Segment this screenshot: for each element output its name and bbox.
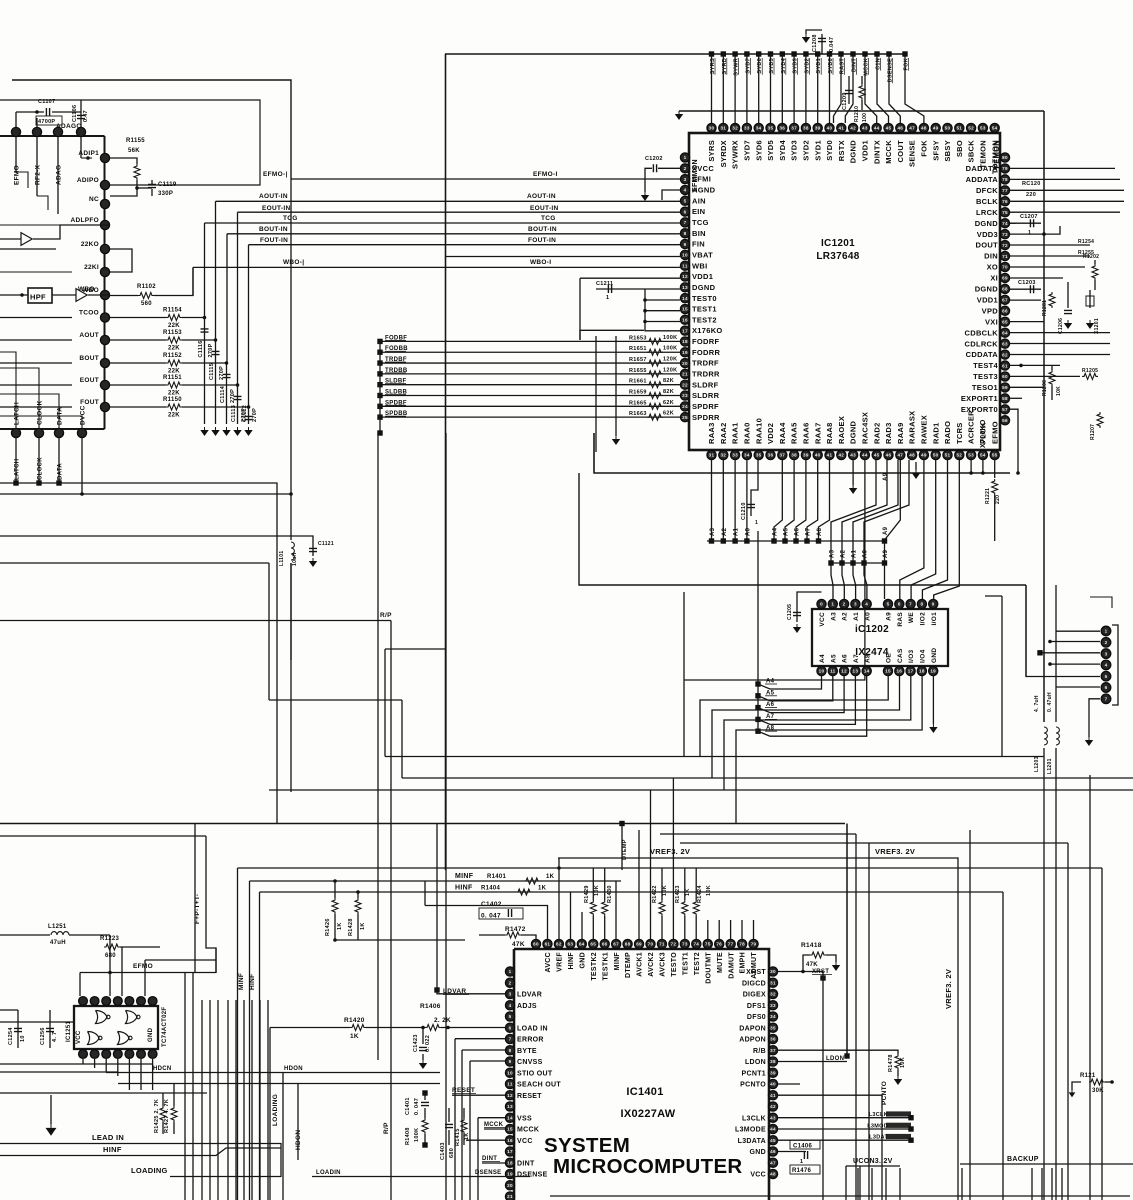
svg-text:HINF: HINF xyxy=(249,974,256,990)
wire VSS feed xyxy=(478,1117,505,1119)
resistor R1210 100 xyxy=(859,84,865,100)
svg-text:DAPON: DAPON xyxy=(739,1025,766,1032)
svg-text:ERROR: ERROR xyxy=(517,1037,544,1044)
svg-text:VCC: VCC xyxy=(819,612,826,627)
svg-text:VDD2: VDD2 xyxy=(766,423,775,444)
svg-text:C1206: C1206 xyxy=(1058,318,1064,334)
svg-text:PCNT1: PCNT1 xyxy=(742,1070,766,1077)
svg-text:TEST2: TEST2 xyxy=(694,952,701,975)
svg-text:DINTX: DINTX xyxy=(872,140,881,164)
svg-text:HDON: HDON xyxy=(284,1066,303,1072)
wire long horizontal y473 xyxy=(594,433,1010,473)
svg-text:20: 20 xyxy=(507,1183,513,1188)
svg-text:3: 3 xyxy=(854,602,857,607)
svg-text:34: 34 xyxy=(770,1014,776,1019)
svg-text:A0: A0 xyxy=(745,527,751,536)
svg-text:37: 37 xyxy=(791,126,797,131)
output resistors R1154..R1150 22K xyxy=(110,308,249,419)
svg-text:33: 33 xyxy=(732,453,738,458)
svg-text:R1665: R1665 xyxy=(629,400,647,406)
inductor L1251 47uH xyxy=(0,934,50,936)
svg-text:C1401: C1401 xyxy=(405,1097,411,1115)
svg-text:VCC: VCC xyxy=(517,1138,533,1145)
svg-text:33: 33 xyxy=(744,126,750,131)
svg-text:2: 2 xyxy=(843,602,846,607)
svg-text:RAA4: RAA4 xyxy=(778,422,787,444)
svg-text:RAA1: RAA1 xyxy=(731,422,740,444)
svg-text:66: 66 xyxy=(1002,309,1008,314)
svg-text:DGND: DGND xyxy=(692,283,716,292)
svg-text:SYRS: SYRS xyxy=(707,140,716,162)
wire DGND drop ground xyxy=(1010,222,1016,224)
wire y868 line xyxy=(238,867,1103,869)
wire left horizontals to gates xyxy=(0,1009,18,1011)
svg-text:R1422: R1422 xyxy=(652,885,658,903)
svg-text:iC1202: iC1202 xyxy=(855,624,889,635)
svg-text:R1655: R1655 xyxy=(629,368,647,374)
svg-text:560: 560 xyxy=(141,301,152,307)
resistor R1418 47K net XRST xyxy=(778,971,823,973)
svg-text:VREF: VREF xyxy=(557,952,564,972)
svg-text:A7: A7 xyxy=(806,527,812,536)
svg-text:5: 5 xyxy=(684,198,687,203)
svg-text:R1207: R1207 xyxy=(1090,424,1096,440)
svg-text:AVCK1: AVCK1 xyxy=(637,952,644,977)
svg-text:40: 40 xyxy=(815,453,821,458)
resistor R1223 680 xyxy=(104,944,120,950)
svg-text:X176KO: X176KO xyxy=(692,326,723,335)
svg-text:EFMO-|: EFMO-| xyxy=(263,171,288,178)
svg-text:1: 1 xyxy=(800,1159,803,1165)
svg-text:DFS0: DFS0 xyxy=(747,1014,766,1021)
svg-text:39: 39 xyxy=(815,126,821,131)
ground arrow right of IC1201 xyxy=(915,462,917,470)
svg-text:22K: 22K xyxy=(168,323,180,329)
wire left vertical x445 xyxy=(445,54,447,870)
svg-text:R/P: R/P xyxy=(380,612,392,619)
svg-text:77: 77 xyxy=(1002,188,1008,193)
IC1401 top pins xyxy=(531,939,758,983)
svg-text:DTEMP: DTEMP xyxy=(622,839,628,860)
svg-text:330P: 330P xyxy=(158,191,173,197)
svg-text:LATCH: LATCH xyxy=(15,459,21,480)
svg-text:17: 17 xyxy=(908,669,914,674)
svg-text:67: 67 xyxy=(613,942,619,947)
svg-text:WBI: WBI xyxy=(692,261,707,270)
resistor R1155 56K xyxy=(110,158,137,164)
svg-text:WE: WE xyxy=(908,612,915,623)
svg-text:MINF: MINF xyxy=(238,973,245,990)
svg-text:CNVSS: CNVSS xyxy=(517,1059,543,1066)
svg-text:C1207: C1207 xyxy=(1020,214,1038,220)
wire TEST3 R1205 xyxy=(1010,375,1080,377)
svg-text:48: 48 xyxy=(770,1172,776,1177)
svg-text:R1202: R1202 xyxy=(1083,254,1099,260)
svg-text:9: 9 xyxy=(509,1059,512,1064)
svg-text:74: 74 xyxy=(1002,221,1008,226)
svg-text:RAA9: RAA9 xyxy=(896,422,905,444)
svg-text:LRCK: LRCK xyxy=(976,208,998,217)
svg-text:R1653: R1653 xyxy=(629,335,647,341)
wire x594 drop xyxy=(593,433,595,473)
svg-text:42: 42 xyxy=(770,1104,776,1109)
svg-text:R1151: R1151 xyxy=(163,375,182,381)
svg-text:22KO: 22KO xyxy=(81,241,99,248)
svg-text:40: 40 xyxy=(770,1082,776,1087)
svg-text:PCNTO: PCNTO xyxy=(740,1082,766,1089)
svg-text:IX2474: IX2474 xyxy=(855,647,889,658)
svg-text:6: 6 xyxy=(898,602,901,607)
svg-text:56K: 56K xyxy=(128,148,140,154)
svg-text:DIGEX: DIGEX xyxy=(743,992,766,999)
svg-text:CDLRCK: CDLRCK xyxy=(965,339,999,348)
svg-text:A0: A0 xyxy=(864,612,871,621)
svg-text:TCG: TCG xyxy=(541,215,556,222)
wire VBAT xyxy=(446,256,681,258)
wire x378 bottom xyxy=(377,1028,379,1060)
wire y940 xyxy=(335,939,465,941)
svg-text:SBSY: SBSY xyxy=(943,140,952,162)
svg-text:ADAG: ADAG xyxy=(56,165,63,185)
svg-text:21: 21 xyxy=(507,1194,513,1199)
IC1201 bottom pins xyxy=(707,410,999,460)
svg-text:A2: A2 xyxy=(842,612,849,621)
svg-text:BIN: BIN xyxy=(692,229,706,238)
NOR gate U1251c xyxy=(88,1032,100,1045)
svg-text:61: 61 xyxy=(545,942,551,947)
svg-text:100K: 100K xyxy=(663,346,677,352)
svg-text:17: 17 xyxy=(682,328,688,333)
svg-text:FODRF: FODRF xyxy=(692,337,719,346)
IC1202 top pins xyxy=(817,599,938,626)
svg-text:13: 13 xyxy=(682,285,688,290)
wire VXI xyxy=(1010,321,1044,323)
svg-text:R1651: R1651 xyxy=(629,346,647,352)
svg-text:R1661: R1661 xyxy=(629,379,647,385)
svg-text:LOADIN: LOADIN xyxy=(316,1170,341,1176)
svg-text:10: 10 xyxy=(682,253,688,258)
svg-text:54: 54 xyxy=(980,453,986,458)
svg-text:R1221: R1221 xyxy=(985,488,991,504)
svg-text:A9: A9 xyxy=(886,612,893,621)
svg-text:CDDATA: CDDATA xyxy=(966,350,999,359)
svg-text:49: 49 xyxy=(921,453,927,458)
wire FOD bus vertical xyxy=(379,341,381,433)
NOR gate U1251a xyxy=(96,1011,108,1024)
capacitor C1206 crystal X1201 xyxy=(1067,282,1069,308)
svg-text:47: 47 xyxy=(770,1160,776,1165)
svg-text:78: 78 xyxy=(1002,177,1008,182)
svg-text:31: 31 xyxy=(709,453,715,458)
ground IC1202 GND pin xyxy=(932,676,934,724)
svg-text:47uH: 47uH xyxy=(50,940,66,946)
svg-text:46: 46 xyxy=(770,1149,776,1154)
svg-text:31: 31 xyxy=(770,980,776,985)
amp WBO xyxy=(76,289,87,302)
svg-text:79: 79 xyxy=(751,942,757,947)
svg-text:R1404: R1404 xyxy=(481,886,501,892)
svg-text:SPDRR: SPDRR xyxy=(692,413,720,422)
svg-text:30: 30 xyxy=(709,126,715,131)
svg-text:FODRR: FODRR xyxy=(692,348,720,357)
svg-text:72: 72 xyxy=(671,942,677,947)
svg-text:VCC: VCC xyxy=(750,1172,766,1179)
wire testk risers R1429 R1430 xyxy=(592,868,594,900)
svg-text:65: 65 xyxy=(590,942,596,947)
svg-text:L3MODE: L3MODE xyxy=(735,1127,766,1134)
svg-text:CDBCLK: CDBCLK xyxy=(965,328,999,337)
svg-text:RF2-X: RF2-X xyxy=(35,164,42,185)
svg-text:1: 1 xyxy=(1105,629,1108,634)
svg-text:SYD2: SYD2 xyxy=(802,140,811,161)
svg-text:4700P: 4700P xyxy=(38,119,55,125)
svg-text:RC120: RC120 xyxy=(1022,181,1041,187)
svg-text:5: 5 xyxy=(1105,674,1108,679)
svg-text:SBCK: SBCK xyxy=(967,140,976,163)
wire y778 xyxy=(402,777,1133,779)
resistor R1102 560 xyxy=(88,294,110,296)
wire bottom right verticals cluster xyxy=(858,1168,1062,1200)
svg-text:MUTE: MUTE xyxy=(717,952,724,973)
svg-text:R1476: R1476 xyxy=(792,1168,812,1174)
svg-text:EOUT: EOUT xyxy=(80,377,99,384)
svg-text:DATA: DATA xyxy=(58,463,64,480)
wire LATCH CLOCK DATA bus xyxy=(0,438,277,824)
svg-text:8: 8 xyxy=(684,231,687,236)
svg-text:6: 6 xyxy=(509,1025,512,1030)
svg-text:BCLK: BCLK xyxy=(976,197,998,206)
svg-text:A6: A6 xyxy=(842,654,849,663)
svg-text:32: 32 xyxy=(720,453,726,458)
wire left block internal feeders xyxy=(0,225,72,407)
svg-text:TRDRF: TRDRF xyxy=(692,359,719,368)
IC U1202 body IX2474 xyxy=(812,609,948,666)
IC1401 right pins xyxy=(735,967,778,1179)
svg-text:SYD5: SYD5 xyxy=(766,140,775,161)
svg-text:1K: 1K xyxy=(350,1033,359,1040)
resistors R1422 R1423 R1424 10K xyxy=(661,868,663,900)
IC U1251 body TC74ACT02F xyxy=(74,1006,158,1049)
svg-text:X1201: X1201 xyxy=(1094,318,1100,334)
svg-text:RAC4SX: RAC4SX xyxy=(861,412,870,444)
svg-text:FOUT: FOUT xyxy=(80,399,99,406)
svg-text:TEST1: TEST1 xyxy=(692,305,717,314)
svg-text:45: 45 xyxy=(886,126,892,131)
capacitor C1205 xyxy=(797,592,822,622)
svg-text:5: 5 xyxy=(509,1014,512,1019)
wire gate feeds xyxy=(79,973,81,997)
wire DOUTMT..ADMUT risers xyxy=(707,920,709,939)
svg-text:1K: 1K xyxy=(538,886,547,892)
svg-text:63: 63 xyxy=(567,942,573,947)
wire EFMO-I riser xyxy=(12,80,291,179)
svg-text:R1428: R1428 xyxy=(348,918,354,936)
svg-text:220: 220 xyxy=(1026,192,1036,198)
svg-text:DVCC: DVCC xyxy=(80,405,87,425)
svg-text:CLOCK: CLOCK xyxy=(38,457,44,480)
wire VREF riser xyxy=(558,858,560,939)
IC1201 top pins xyxy=(707,123,999,174)
svg-text:AGND: AGND xyxy=(692,186,716,195)
svg-text:62K: 62K xyxy=(663,400,674,406)
wire DFCK xyxy=(1010,189,1124,191)
svg-text:I/O4: I/O4 xyxy=(920,649,927,663)
wire R1420 line xyxy=(270,1027,350,1029)
svg-text:WBO-|: WBO-| xyxy=(283,259,304,266)
wire GND riser xyxy=(581,912,583,939)
svg-text:TEST2: TEST2 xyxy=(692,315,717,324)
svg-text:22K: 22K xyxy=(168,369,180,375)
svg-text:A1: A1 xyxy=(853,612,860,621)
svg-text:R1150: R1150 xyxy=(163,397,182,403)
svg-text:62: 62 xyxy=(556,942,562,947)
svg-text:RAD2: RAD2 xyxy=(872,422,881,444)
wire PCNT1 xyxy=(778,1083,800,1085)
capacitor C1402 0.047 xyxy=(479,908,523,919)
wire right verticals band xyxy=(846,824,848,1057)
svg-text:38: 38 xyxy=(803,126,809,131)
wire ADIPO net xyxy=(0,100,260,185)
svg-text:A2: A2 xyxy=(722,527,728,536)
svg-text:PCNTO: PCNTO xyxy=(881,1081,888,1105)
svg-text:15: 15 xyxy=(885,669,891,674)
svg-text:4: 4 xyxy=(684,188,687,193)
svg-text:R1406: R1406 xyxy=(420,1003,441,1010)
capacitor C1203 xyxy=(1010,288,1041,290)
wire y790 xyxy=(269,789,1133,791)
svg-text:C1254: C1254 xyxy=(8,1027,14,1045)
svg-text:12: 12 xyxy=(507,1093,513,1098)
svg-text:A5: A5 xyxy=(830,654,837,663)
svg-text:DIN: DIN xyxy=(984,252,998,261)
svg-text:35: 35 xyxy=(768,126,774,131)
svg-text:LOAD IN: LOAD IN xyxy=(517,1025,548,1032)
svg-text:EOUT-IN: EOUT-IN xyxy=(262,205,290,212)
svg-text:AOUT: AOUT xyxy=(79,332,99,339)
svg-text:L3DAT: L3DAT xyxy=(869,1135,888,1141)
svg-text:I/O1: I/O1 xyxy=(931,612,938,626)
svg-text:RAOEX: RAOEX xyxy=(837,416,846,444)
wire TEST4 xyxy=(1010,364,1060,366)
svg-text:C1406: C1406 xyxy=(793,1144,813,1150)
svg-text:NC: NC xyxy=(89,196,99,203)
svg-text:3: 3 xyxy=(1105,651,1108,656)
svg-text:FOK: FOK xyxy=(920,140,929,157)
svg-text:EOUT-IN: EOUT-IN xyxy=(530,205,558,212)
svg-text:48: 48 xyxy=(909,453,915,458)
svg-text:1: 1 xyxy=(684,155,687,160)
svg-text:10K: 10K xyxy=(662,885,668,896)
svg-text:18: 18 xyxy=(507,1160,513,1165)
svg-text:RAA0: RAA0 xyxy=(743,422,752,444)
svg-text:55: 55 xyxy=(992,453,998,458)
svg-text:25: 25 xyxy=(682,415,688,420)
IC1251 top pins xyxy=(79,997,157,1006)
capacitor C1119 330P xyxy=(137,187,152,189)
svg-text:ADJS: ADJS xyxy=(517,1003,537,1010)
svg-text:A6: A6 xyxy=(795,527,801,536)
svg-text:I/O3: I/O3 xyxy=(908,649,915,663)
svg-text:EFMO-I: EFMO-I xyxy=(533,171,558,178)
svg-text:22: 22 xyxy=(682,382,688,387)
wire R/B line xyxy=(778,1049,847,1051)
svg-text:56: 56 xyxy=(1002,418,1008,423)
svg-text:R121: R121 xyxy=(1080,1073,1096,1079)
svg-text:SEACH OUT: SEACH OUT xyxy=(517,1082,561,1089)
capacitor C1254 10 xyxy=(17,1010,19,1048)
svg-text:68: 68 xyxy=(625,942,631,947)
wire HINF line xyxy=(260,891,1004,893)
svg-text:10: 10 xyxy=(20,1035,26,1042)
svg-text:RAA10: RAA10 xyxy=(754,418,763,444)
capacitor C1210 1 xyxy=(751,460,758,516)
svg-text:14: 14 xyxy=(864,669,870,674)
svg-text:7: 7 xyxy=(1105,697,1108,702)
svg-text:16: 16 xyxy=(682,318,688,323)
resistor R1207 xyxy=(1097,412,1103,428)
svg-text:LR37648: LR37648 xyxy=(816,251,859,262)
svg-text:50: 50 xyxy=(945,126,951,131)
svg-text:12: 12 xyxy=(682,274,688,279)
capacitor C1406 xyxy=(778,1151,806,1153)
svg-text:SYD7: SYD7 xyxy=(743,140,752,161)
svg-text:38: 38 xyxy=(791,453,797,458)
svg-text:62K: 62K xyxy=(663,411,674,417)
wire AVCK risers xyxy=(638,830,640,939)
svg-text:HINF: HINF xyxy=(455,885,473,892)
inductor L1201 0.47uH xyxy=(1055,585,1057,722)
wire vertical x616 with ground xyxy=(615,336,617,436)
wire WBO riser xyxy=(192,267,194,295)
svg-text:C1210: C1210 xyxy=(741,502,747,520)
svg-text:BYTE: BYTE xyxy=(517,1048,537,1055)
svg-text:36: 36 xyxy=(779,126,785,131)
svg-text:1: 1 xyxy=(1028,230,1031,236)
connector CN1201 pins 1-7 xyxy=(1101,626,1111,703)
svg-text:VREF3. 2V: VREF3. 2V xyxy=(650,847,690,856)
svg-text:DFS1: DFS1 xyxy=(747,1003,766,1010)
svg-text:16: 16 xyxy=(896,669,902,674)
svg-text:32: 32 xyxy=(770,992,776,997)
svg-text:69: 69 xyxy=(636,942,642,947)
svg-text:ADIPO: ADIPO xyxy=(77,177,99,184)
wire ACRCER PLCK drops xyxy=(970,460,972,473)
resistor R1404 1K xyxy=(516,889,532,895)
IC left analog body xyxy=(0,136,105,429)
svg-text:VXI: VXI xyxy=(985,317,998,326)
wire y823 long xyxy=(0,823,845,825)
wire top right feed xyxy=(679,110,1044,112)
svg-text:ADLPFO: ADLPFO xyxy=(70,217,99,224)
svg-text:37: 37 xyxy=(779,453,785,458)
svg-text:42: 42 xyxy=(838,453,844,458)
svg-text:BOUT-IN: BOUT-IN xyxy=(528,226,557,233)
svg-text:SYD1: SYD1 xyxy=(813,140,822,161)
svg-text:SYD4: SYD4 xyxy=(778,139,787,160)
svg-text:DGND: DGND xyxy=(849,420,858,444)
svg-text:73: 73 xyxy=(682,942,688,947)
wire x1002 drop to y757 xyxy=(1001,596,1003,757)
svg-text:C1106: C1106 xyxy=(72,105,78,122)
svg-text:57: 57 xyxy=(1002,407,1008,412)
capacitor C1208 0.047 xyxy=(821,34,823,54)
svg-text:STIO OUT: STIO OUT xyxy=(517,1070,553,1077)
svg-text:VDD1: VDD1 xyxy=(861,140,870,161)
svg-text:4: 4 xyxy=(1105,663,1108,668)
wire CDLRCK xyxy=(1010,343,1110,345)
svg-text:1: 1 xyxy=(831,602,834,607)
svg-text:R1663: R1663 xyxy=(629,411,647,417)
